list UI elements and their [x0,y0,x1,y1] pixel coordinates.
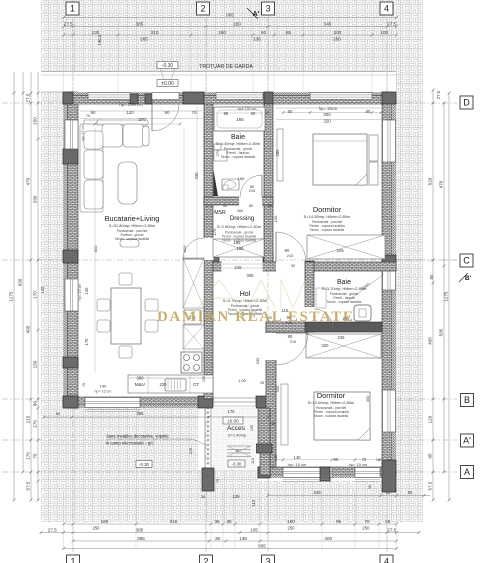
door living top (arc) [152,104,179,131]
acces railing dotted [207,407,209,409]
svg-text:170: 170 [33,291,38,299]
svg-text:250: 250 [288,526,296,531]
svg-text:210: 210 [287,253,294,258]
svg-text:135: 135 [239,536,247,541]
svg-text:27.5: 27.5 [26,93,31,102]
svg-text:Tavan - vopsea lavabila: Tavan - vopsea lavabila [221,155,256,159]
svg-text:850: 850 [93,245,98,252]
svg-text:200: 200 [334,30,342,35]
masonry left wall [68,92,79,408]
svg-text:245: 245 [189,448,193,454]
window living bottom 140 [85,398,140,408]
door dormitor1 [276,232,306,262]
svg-text:345: 345 [324,21,332,26]
svg-text:170: 170 [33,420,38,428]
svg-text:27.5: 27.5 [436,90,441,99]
svg-text:S=12.60mp; Hliber=2.80m: S=12.60mp; Hliber=2.80m [308,400,355,405]
svg-text:165: 165 [236,117,244,122]
svg-text:-bare metalice decorative, vop: -bare metalice decorative, vopsite [106,434,169,439]
svg-text:405: 405 [428,337,433,345]
sink drainer [165,379,186,391]
svg-text:470: 470 [26,177,31,185]
svg-text:-0.30: -0.30 [162,63,174,69]
bottom dimension chains [268,495,430,497]
left dimension chains [22,72,24,93]
wall dormitor2 left [266,322,276,467]
bottom wall left section [63,397,213,405]
svg-text:Tavan - vopsea lavabila: Tavan - vopsea lavabila [314,414,349,418]
svg-text:170: 170 [84,338,89,346]
window dormitor1 right [383,120,396,162]
svg-text:250: 250 [93,526,101,531]
window spec diagonal baie2 [345,274,384,303]
right wall masonry [382,92,392,478]
svg-text:S=3.70mp; Hliber=2.80m: S=3.70mp; Hliber=2.80m [322,286,367,291]
svg-text:210: 210 [290,340,296,344]
svg-text:285: 285 [275,149,280,157]
top dimension chain row 965 [64,17,397,19]
svg-text:Baie: Baie [231,134,245,141]
bottom wall right section [258,467,396,475]
svg-text:B': B' [465,275,472,282]
pier corner top-right [382,92,396,104]
window living left 140 [65,279,78,311]
svg-text:400: 400 [324,536,332,541]
svg-text:170: 170 [26,452,31,460]
svg-text:80: 80 [249,204,253,208]
svg-text:D: D [463,98,470,108]
svg-text:3: 3 [265,4,270,14]
interior wall hol-baie2 [305,262,314,332]
svg-text:hp= 15 cm: hp= 15 cm [349,462,368,467]
svg-text:75: 75 [33,453,38,459]
svg-text:M&V: M&V [135,382,146,388]
coffee table [118,162,137,204]
svg-text:60: 60 [261,30,267,35]
svg-text:75: 75 [216,479,220,483]
sofa L living [80,120,149,212]
interior dim line dormitor2 bottom [276,459,387,461]
svg-text:270: 270 [215,149,220,156]
door baie2 [314,309,333,328]
svg-text:320: 320 [323,119,331,124]
wall below baie2 (solid) [305,322,382,332]
svg-text:-0.30: -0.30 [231,462,242,467]
window sill lines bottom [283,479,332,481]
svg-text:57.5: 57.5 [26,481,31,490]
right dimension chains [432,90,434,500]
svg-text:70: 70 [86,114,90,118]
interior vertical dim lines living [94,128,96,372]
pier left wall 3 [63,357,78,368]
armchair living [120,240,139,248]
svg-text:70: 70 [192,110,197,115]
svg-text:305: 305 [247,273,255,278]
svg-text:215: 215 [26,415,31,423]
svg-text:120: 120 [428,415,433,423]
svg-text:120: 120 [126,110,134,115]
svg-text:385: 385 [136,527,144,532]
bathtub baie1 [214,107,265,131]
svg-text:90: 90 [165,110,170,115]
opening dressing to hol [222,262,263,272]
svg-text:520: 520 [428,177,433,185]
pier acces right [256,396,272,408]
svg-text:hp4 130 cm: hp4 130 cm [238,107,257,111]
svg-text:80: 80 [429,274,434,279]
vanity baie1 [222,179,239,190]
wall hol bottom-right [266,322,305,332]
interior wall hol top [213,262,396,271]
shower/sink baie2 [316,288,326,308]
door baie1 [240,175,262,197]
top dimension chain row 1 [64,26,397,28]
svg-text:C: C [463,256,470,266]
window dormitor1 top 200 [310,93,372,100]
svg-text:Acces: Acces [227,425,246,432]
window dormitor2 bottom 140 [283,468,332,478]
svg-text:110: 110 [251,499,256,506]
opening dormitor1 door [276,262,305,272]
pier corner bottom-right [382,460,396,492]
dining table [111,288,141,344]
acces right wall upper [258,408,270,444]
building footprint (white) [63,92,396,408]
svg-text:1175: 1175 [9,291,14,301]
pier bottom right section left end [258,467,270,478]
svg-text:A: A [464,467,470,477]
svg-text:110: 110 [251,458,255,464]
svg-text:B: B [464,395,470,405]
svg-text:85: 85 [286,30,292,35]
svg-text:470: 470 [439,180,444,188]
entry door threshold [213,397,256,399]
svg-text:Tavan - vopsea lavabila: Tavan - vopsea lavabila [115,237,150,241]
right wall insulation [392,92,396,478]
svg-text:930: 930 [18,278,23,286]
dim line below left facade y417 [44,416,268,418]
svg-text:215: 215 [235,265,243,270]
svg-text:345: 345 [313,490,321,495]
svg-text:140: 140 [294,455,302,460]
opening baie2 door [305,307,315,328]
kitchen counter bottom [128,375,213,393]
svg-text:70: 70 [362,457,367,462]
svg-text:57.5: 57.5 [428,481,433,490]
terrain brick hatch [41,0,423,522]
svg-text:95: 95 [224,111,229,116]
bed dormitor1 [313,134,367,185]
pier corner bottom-left [63,396,78,408]
wardrobe dormitor2 [306,334,381,358]
svg-text:150: 150 [33,117,38,125]
top wall [63,92,396,95]
svg-text:160: 160 [237,209,243,213]
pier right wall at C [382,255,396,270]
right grid bubbles [460,96,473,109]
svg-text:225: 225 [338,335,346,340]
svg-text:200: 200 [323,112,331,117]
svg-text:Dormitor: Dormitor [313,205,342,214]
svg-text:965: 965 [226,12,234,17]
pier dormitor2 corner [266,322,276,332]
svg-text:15: 15 [376,458,380,462]
svg-text:Dressing: Dressing [230,215,255,222]
svg-text:-0.30: -0.30 [139,462,150,467]
svg-text:190.5: 190.5 [97,34,102,46]
acces steps [227,445,251,447]
svg-text:100: 100 [380,30,388,35]
svg-text:15: 15 [235,449,239,453]
svg-text:Baie: Baie [337,279,351,286]
svg-text:70: 70 [364,519,370,524]
radiator dormitor1 left [277,129,283,181]
svg-text:220: 220 [160,382,168,387]
pier top wall mid-right [145,94,152,104]
svg-text:35: 35 [201,494,206,499]
svg-text:90: 90 [288,334,293,339]
pier left wall 2 [63,250,78,263]
svg-text:20: 20 [268,204,272,208]
window baie2 right 60 [383,268,396,290]
svg-text:180: 180 [287,519,295,524]
svg-text:100: 100 [273,215,278,222]
svg-text:95: 95 [336,519,342,524]
nightstands dormitor1 [369,135,378,161]
svg-text:S=31.80mp; Hliber=2.80m: S=31.80mp; Hliber=2.80m [109,223,156,228]
svg-text:225: 225 [336,248,344,253]
svg-text:A': A' [463,436,471,446]
interior dim lines dormitor1 top [283,112,381,114]
svg-text:35: 35 [271,422,275,426]
svg-text:55: 55 [385,519,391,524]
svg-text:4: 4 [384,4,389,14]
interior wall baie1 bottom [204,197,273,205]
svg-text:Hol: Hol [240,291,251,298]
svg-text:A': A' [253,11,260,18]
trotuar band (white) [41,72,396,93]
svg-text:hp= 15cm: hp= 15cm [319,106,338,111]
svg-text:2: 2 [200,4,205,14]
door dormitor2 [276,333,308,365]
section marker A top [247,8,258,19]
svg-text:405: 405 [26,325,31,333]
svg-text:Tavan - vopsea lavabila: Tavan - vopsea lavabila [310,228,345,232]
window dormitor2 right [383,390,396,432]
svg-text:35: 35 [214,519,220,524]
svg-text:hp= 0.00 cm: hp= 0.00 cm [119,102,143,107]
svg-text:S=14.55mp; Hliber=2.80m: S=14.55mp; Hliber=2.80m [304,214,351,219]
svg-text:140: 140 [40,286,45,294]
svg-text:35: 35 [215,536,221,541]
svg-text:70: 70 [82,383,86,387]
svg-text:±0.00: ±0.00 [227,419,239,424]
svg-text:200: 200 [255,357,260,364]
vertical ext lines from top chain [63,20,65,92]
svg-text:170: 170 [228,409,236,414]
svg-text:Dormitor: Dormitor [317,391,346,400]
fridge FR [184,310,201,324]
grid bubbles bottom [67,555,80,563]
svg-text:60: 60 [251,111,256,116]
svg-text:TROTUAR DE GARDA: TROTUAR DE GARDA [199,64,253,70]
pier hol wall left junction [205,253,219,266]
svg-text:CT: CT [193,382,199,387]
wardrobe dormitor1 [307,235,385,259]
radiator dormitor2 [281,384,288,445]
svg-text:S=2.80mp; Hliber=2.80m: S=2.80mp; Hliber=2.80m [217,224,262,229]
svg-text:165: 165 [238,176,245,181]
svg-text:105: 105 [250,527,258,532]
svg-text:Bucatarie+Living: Bucatarie+Living [105,214,160,223]
svg-text:130: 130 [92,30,100,35]
svg-text:in camp electrostatic - gri;: in camp electrostatic - gri; [106,441,154,446]
svg-text:210: 210 [151,30,159,35]
svg-text:330: 330 [33,195,38,203]
pier top wall at axis 3 [264,92,273,104]
svg-text:370: 370 [138,117,146,122]
svg-text:180: 180 [101,519,109,524]
opening baie1 door [239,197,262,206]
window living left upper [65,120,78,149]
svg-text:385: 385 [136,21,144,26]
svg-text:965: 965 [258,544,266,549]
window baie1 top 165 [216,93,263,100]
svg-text:80: 80 [56,411,61,416]
top dimension chain row 2 [64,34,397,36]
svg-text:30: 30 [368,485,372,489]
pier corner top-left [63,92,73,104]
svg-text:400: 400 [365,395,370,402]
svg-text:±0.00: ±0.00 [161,81,174,87]
svg-text:150: 150 [33,360,38,368]
pier hol wall mid junction [263,253,273,266]
porch paving [213,407,256,469]
svg-text:90: 90 [91,110,96,115]
svg-text:60: 60 [288,109,293,114]
svg-text:80: 80 [366,109,371,114]
wc baie1 [223,185,228,190]
svg-text:95: 95 [428,453,433,459]
bed dormitor2 [314,392,370,440]
pier below dormitor2 wall [320,467,330,481]
svg-text:90: 90 [223,204,227,208]
level labels top [157,62,178,69]
svg-text:395: 395 [137,536,145,541]
svg-text:S=4.45mp; Hliber=2.80m: S=4.45mp; Hliber=2.80m [216,141,261,146]
svg-text:80: 80 [408,490,413,495]
svg-text:27.5: 27.5 [64,21,73,26]
svg-text:2: 2 [203,557,208,563]
svg-text:30: 30 [291,264,295,268]
svg-text:180: 180 [218,30,226,35]
svg-text:210: 210 [249,189,255,193]
svg-text:140: 140 [100,384,107,389]
svg-text:150: 150 [202,376,206,382]
svg-text:180: 180 [233,21,241,26]
svg-text:250: 250 [333,37,341,42]
dressing wardrobe X [213,239,264,257]
svg-text:185: 185 [237,246,245,251]
svg-text:MSR: MSR [214,210,226,216]
svg-text:hp= 15 cm: hp= 15 cm [78,284,82,301]
svg-text:265: 265 [140,37,148,42]
-0.30 level box lower-left [136,461,152,468]
bottom extension lines [63,491,65,549]
kitchen cabinet strip with X [183,258,204,349]
wc baie2 [354,305,371,321]
pier left wall [63,149,78,164]
acces right wall lower [260,453,270,475]
acces right pier [256,444,272,453]
svg-text:595: 595 [439,328,444,336]
svg-text:215: 215 [170,519,178,524]
svg-text:DAMIAN REAL ESTATE: DAMIAN REAL ESTATE [157,309,354,325]
opening MSR door in kitchen wall [204,238,214,260]
chairs [97,273,158,358]
svg-text:120: 120 [274,455,278,461]
svg-text:hp= 15 cm: hp= 15 cm [288,462,307,467]
interior wall kitchen/hall x204 [204,104,213,399]
svg-text:105: 105 [250,425,254,431]
svg-text:360: 360 [137,376,145,381]
svg-text:1: 1 [70,4,75,14]
grid axes [72,18,74,552]
stove [181,352,202,373]
svg-text:135: 135 [253,37,261,42]
svg-text:850: 850 [182,245,187,252]
svg-text:hp= 15 cm: hp= 15 cm [95,390,112,394]
pier top wall / kitchen wall junction [183,92,204,104]
svg-text:hp= 15 cm: hp= 15 cm [81,125,85,142]
porch pillar left [202,468,214,491]
svg-text:3: 3 [265,557,270,563]
svg-text:4: 4 [384,557,389,563]
insulation band left wall [63,92,68,408]
dark wedge (door leaf/radiator) baie1 [214,170,219,196]
svg-text:135: 135 [233,494,241,499]
svg-text:1175: 1175 [444,291,449,301]
svg-text:435: 435 [194,172,199,180]
svg-text:140: 140 [84,287,89,295]
svg-text:30: 30 [265,111,269,115]
door msr (arc into kitchen) [183,238,204,259]
svg-text:S=1.40mp: S=1.40mp [228,433,247,438]
svg-text:165: 165 [234,240,242,245]
svg-text:1.00: 1.00 [238,378,247,383]
svg-text:35: 35 [226,519,232,524]
trotuar de garda edge lines [41,71,396,73]
svg-text:1: 1 [70,557,75,563]
interior wall baie1-dormitor1 [264,104,273,262]
svg-text:27.5: 27.5 [387,527,396,532]
svg-text:250: 250 [363,526,371,531]
pier hol-baie2 junction [305,261,314,272]
grid bubbles top [66,2,79,15]
svg-text:170: 170 [212,228,217,235]
svg-text:27.5: 27.5 [48,527,57,532]
opening dormitor2 door [266,333,277,360]
pier acces left [198,396,213,408]
window dormitor2 bottom 70 [355,468,380,478]
svg-text:27.5: 27.5 [387,21,396,26]
washing machine baie1 [214,144,221,150]
svg-text:25: 25 [260,381,264,385]
svg-text:Tavan - vopsea lavabila: Tavan - vopsea lavabila [327,300,362,304]
pier top wall mid-left [130,94,138,104]
svg-text:95: 95 [334,457,339,462]
window living top 120 [88,93,130,100]
